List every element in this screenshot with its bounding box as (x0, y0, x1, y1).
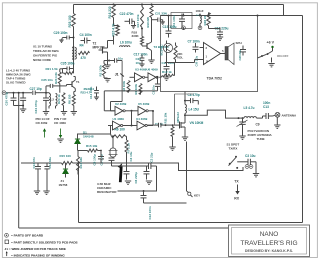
offboard marker tank (2, 91, 6, 95)
label KEY (194, 194, 200, 198)
note L1 L2 (6, 69, 31, 85)
transformer X1 (72, 46, 76, 60)
capacitor C4 (80, 33, 92, 44)
arrow TX-RX (235, 185, 239, 195)
resistor R17 (136, 4, 144, 30)
svg-text:MPSA13: MPSA13 (176, 112, 180, 123)
legend parts off board (5, 233, 44, 237)
phasing arrow (118, 163, 123, 182)
switch S1 pole1 (229, 156, 239, 169)
note resonator (97, 182, 117, 194)
svg-text:R21 1.5k: R21 1.5k (46, 67, 59, 71)
offboard marker near C15 (182, 26, 186, 30)
ground under antenna (274, 117, 280, 128)
resistor R3 100k (122, 80, 130, 92)
label T3 type (154, 45, 171, 49)
svg-text:ON-OFF: ON-OFF (277, 54, 289, 58)
svg-text:T1: T1 (76, 80, 80, 84)
svg-text:R1 100k: R1 100k (134, 83, 138, 94)
svg-text:C15 100u: C15 100u (163, 25, 177, 29)
svg-text:TRAVELLER'S RIG: TRAVELLER'S RIG (240, 240, 297, 247)
wire right frame (302, 16, 304, 223)
resistor R15 10k (78, 144, 102, 152)
svg-text:R15 100: R15 100 (60, 154, 72, 158)
junction audio rail dots (168, 15, 210, 17)
wire D1 top (78, 126, 111, 135)
junction C12 (143, 190, 145, 192)
ground after C3 (253, 167, 259, 177)
resistor R6 100 (112, 128, 126, 138)
resistor R12 1k (157, 63, 175, 79)
svg-text:ANTENNA: ANTENNA (282, 114, 297, 118)
note polyvaricon (248, 129, 273, 141)
capacitor C19 (209, 26, 229, 41)
note S1 DPDT (227, 143, 240, 151)
capacitor C5 100p (99, 154, 114, 166)
key jack (187, 191, 193, 197)
capacitor C20 (238, 46, 246, 61)
junction key rail (78, 162, 80, 164)
wire left rail (18, 93, 20, 228)
svg-text:CD 4069: CD 4069 (54, 121, 66, 125)
capacitor C27 10p (30, 87, 50, 95)
svg-text:DESIGNED BY: KANG.K.P.S.: DESIGNED BY: KANG.K.P.S. (245, 249, 293, 253)
legend phasing (6, 251, 66, 257)
resistor R6 150 (68, 94, 78, 115)
resistor R18 (132, 29, 144, 45)
inductor L5 4.7u (239, 106, 257, 118)
svg-text:U4 4069: U4 4069 (136, 117, 148, 121)
svg-text:C14 100n: C14 100n (89, 86, 93, 99)
wire drain to C8 (0, 0, 2, 2)
op-amp U7 TDA7052 (200, 43, 227, 65)
inverter U3 (130, 73, 145, 82)
transistor T2 MPF102 (93, 42, 108, 57)
wire L4 to antenna line (185, 110, 239, 118)
svg-text:CD 4069: CD 4069 (36, 121, 48, 125)
resistor R24 1.5k (54, 69, 62, 93)
label TDA 7052 (207, 77, 222, 81)
label RX (234, 197, 239, 201)
svg-text:U1 4069: U1 4069 (113, 117, 125, 121)
svg-text:L6 100u: L6 100u (120, 41, 132, 45)
svg-text:= PART DIRECTLY SOLDERED TO PC: = PART DIRECTLY SOLDERED TO PCB PADS (11, 240, 78, 244)
ground under C6 (146, 181, 152, 184)
svg-text:C8 100p: C8 100p (93, 154, 97, 166)
svg-text:R12 1k: R12 1k (162, 70, 172, 74)
label ANTENNA (282, 114, 297, 118)
svg-text:C13: C13 (263, 105, 269, 109)
svg-text:C20 22u: C20 22u (238, 49, 242, 60)
label ON-OFF (277, 54, 289, 58)
svg-text:C30 2.2u: C30 2.2u (195, 55, 199, 66)
svg-text:10u: 10u (118, 56, 123, 60)
svg-text:TUNE: TUNE (257, 137, 265, 141)
ground under T2 (104, 57, 110, 69)
capacitor C29 (54, 31, 75, 42)
wire +V rail drop right (283, 5, 285, 16)
capacitor C7 (188, 40, 200, 67)
svg-text:SLUG TUNED: SLUG TUNED (6, 81, 26, 85)
svg-text:R25 100: R25 100 (68, 15, 72, 27)
ground under C9 (239, 136, 245, 139)
inverter U1 (108, 121, 123, 130)
jumper J1 (115, 61, 124, 102)
wire gate chain (104, 102, 154, 126)
svg-text:VOL: VOL (177, 56, 183, 60)
inverter U2 (111, 106, 126, 115)
capacitor C3 10u (237, 154, 256, 167)
junction on +V rail (113, 4, 115, 6)
wire mixer down (73, 59, 75, 66)
offboard marker near L3 (198, 26, 202, 30)
resistor R20 (116, 26, 120, 36)
wire gate feedback (104, 90, 157, 111)
wire S1 lower step (228, 167, 243, 171)
wire main bottom frame (19, 227, 303, 229)
capacitor C1 10n (152, 78, 161, 95)
wire pot wiper to gate (175, 94, 194, 125)
resistor R14 33k (77, 151, 84, 175)
capacitor C25 10u (104, 56, 123, 63)
svg-text:C30 470p: C30 470p (5, 92, 9, 105)
arrow PIN7 to ground (57, 129, 63, 143)
svg-text:1N4148: 1N4148 (83, 134, 94, 138)
resistor R19 (146, 4, 153, 43)
wire audio internals (163, 13, 208, 81)
svg-text:C3 10u: C3 10u (129, 151, 133, 161)
capacitor C4 10u (124, 151, 134, 179)
svg-text:SPH: SPH (236, 41, 242, 45)
capacitor C8 100p (93, 151, 105, 166)
svg-text:RESONATOR: RESONATOR (97, 190, 117, 194)
wire top +V rail (74, 4, 284, 6)
svg-text:330K: 330K (132, 34, 140, 38)
svg-text:R2 100k: R2 100k (98, 65, 102, 77)
capacitor C7 1n (148, 122, 178, 128)
wire tank rail (6, 92, 32, 94)
inductor L1 (49, 94, 51, 109)
svg-text:C4 100n: C4 100n (80, 33, 92, 37)
capacitor C13 33u (44, 157, 52, 191)
svg-text:R6 150: R6 150 (68, 94, 72, 104)
svg-text:C6 220p: C6 220p (134, 172, 138, 184)
capacitor C8 470p (184, 92, 200, 105)
inverter U6 (145, 73, 158, 82)
svg-text:RX: RX (234, 197, 239, 201)
svg-text:C7 100n: C7 100n (188, 40, 200, 44)
svg-text:C22 470n: C22 470n (120, 12, 134, 16)
label VN 10KM (190, 121, 204, 125)
svg-text:C21 33N: C21 33N (155, 12, 167, 16)
antenna connector (273, 112, 280, 117)
svg-text:R23 1k: R23 1k (57, 94, 61, 104)
wire lower inner box bottom (79, 222, 303, 224)
soldered part box C1 (171, 13, 192, 29)
transistor T1 (67, 77, 80, 95)
capacitor C2 22p (112, 152, 157, 169)
transistor T4 BC548C (159, 41, 172, 63)
ceramic resonator X2 (109, 148, 118, 157)
resistor R4 (79, 44, 90, 61)
audio section frame (161, 16, 258, 92)
capacitor C22 (120, 12, 137, 28)
svg-text:TX/RX: TX/RX (229, 147, 238, 151)
svg-text:R15 10k: R15 10k (86, 144, 98, 148)
resistor R28 (203, 13, 210, 26)
inductor L6 (120, 41, 132, 48)
note X1 winding (33, 44, 60, 62)
svg-text:R19 220: R19 220 (146, 16, 150, 27)
capacitor C14b (89, 86, 99, 99)
speaker SPK (221, 41, 242, 65)
svg-text:R17 100k: R17 100k (136, 14, 140, 27)
title text (240, 231, 297, 253)
resistor R7 2.2k (125, 140, 130, 154)
svg-text:C3 10u: C3 10u (245, 154, 256, 158)
transistor T3 (142, 42, 152, 55)
svg-text:C12 100n: C12 100n (148, 206, 152, 219)
note PIN 7 (54, 117, 67, 125)
legend jumper (5, 247, 66, 251)
wire tank to buffer (63, 85, 67, 86)
capacitor C16 (162, 61, 175, 73)
svg-text:C17 100n: C17 100n (134, 53, 148, 57)
junction +V at audio box (257, 15, 259, 17)
inverter U4 (123, 121, 147, 130)
label R16 220 (108, 6, 112, 18)
svg-text:R11 10k: R11 10k (164, 112, 168, 123)
wire audio top rail (161, 15, 303, 17)
offboard markers at C3 (245, 165, 253, 169)
arrow PIN14 (43, 128, 46, 137)
label U3 U6 (135, 68, 158, 72)
svg-text:C34 470p: C34 470p (34, 100, 38, 113)
capacitor C13 (257, 101, 273, 119)
svg-text:L4 15U: L4 15U (189, 107, 200, 111)
wire osc out (144, 166, 157, 191)
resistor R22 4.7 (63, 69, 74, 75)
label +6 V (267, 41, 275, 45)
svg-text:ON FERRITE PIG: ON FERRITE PIG (33, 53, 58, 57)
svg-text:BC548C: BC548C (159, 44, 163, 56)
svg-text:C27 10p: C27 10p (30, 87, 42, 91)
inverter U5 (125, 106, 148, 115)
svg-text:470: 470 (81, 56, 87, 60)
svg-text:C35 100n: C35 100n (61, 62, 75, 66)
svg-text:+6 V: +6 V (267, 41, 275, 45)
resistor R21 label (46, 67, 59, 71)
transistor T5 VN10KM (176, 112, 185, 131)
wire key rail (21, 162, 62, 164)
resistor R16 (112, 5, 116, 18)
polyvaricon C9 (237, 118, 260, 135)
switch ON-OFF (258, 51, 273, 58)
wire lower inner box left (78, 162, 80, 223)
ground under C14 (34, 191, 40, 194)
svg-text:C9: C9 (256, 123, 260, 127)
capacitor C15 (163, 25, 177, 38)
svg-text:10n: 10n (136, 61, 141, 65)
capacitor C24 (18, 92, 27, 113)
capacitor C28 (136, 55, 145, 67)
svg-text:R24 1.5k: R24 1.5k (54, 72, 58, 84)
diode D1 1N4148 (75, 131, 94, 149)
label Z1 1N758 (59, 179, 68, 187)
svg-text:TX: TX (234, 179, 239, 183)
label U2 U5 (115, 102, 150, 106)
svg-text:1N758: 1N758 (59, 183, 68, 187)
terminal +6V (271, 46, 273, 51)
svg-text:TDA 7052: TDA 7052 (207, 77, 222, 81)
svg-text:C2 22p: C2 22p (149, 152, 153, 162)
capacitor C26 10n (41, 78, 62, 93)
svg-text:NANO: NANO (260, 231, 278, 238)
svg-text:C25 10n: C25 10n (41, 78, 53, 82)
svg-text:VN 10KM: VN 10KM (190, 121, 204, 125)
svg-text:U2 4069: U2 4069 (115, 102, 127, 106)
zener Z1 (63, 163, 68, 178)
svg-text:R4: R4 (80, 44, 84, 48)
potentiometer 22K VOL (174, 43, 183, 63)
wire to key (186, 142, 188, 192)
inductor L4 15u (184, 105, 200, 119)
capacitor C30 470p (5, 92, 24, 106)
junction antenna line (238, 117, 244, 119)
label 2N3904 (81, 87, 95, 95)
resistor R2 100k (98, 64, 110, 82)
ground under T3 (148, 55, 154, 64)
junction R20 top (114, 25, 119, 27)
svg-text:KEY: KEY (194, 194, 200, 198)
svg-text:L2: L2 (51, 98, 55, 102)
label R25 100 (68, 15, 72, 27)
note PIN 14 (36, 117, 50, 125)
label TX (234, 179, 239, 183)
capacitor C17 (134, 53, 148, 57)
wire osc top (111, 134, 127, 148)
capacitor C12 (118, 191, 187, 220)
resistor R15 100 (60, 154, 73, 165)
inductor L2 (51, 94, 58, 109)
svg-text:R3 100k: R3 100k (122, 80, 126, 91)
capacitor C35 (61, 62, 75, 72)
wire key rail 2 (73, 163, 229, 171)
resistor R11 (164, 112, 176, 150)
svg-text:U5 4069: U5 4069 (138, 102, 150, 106)
capacitor C34 470p (34, 92, 49, 115)
svg-text:R28 22: R28 22 (203, 15, 207, 25)
svg-text:= INDICATES PHASING OF WINDING: = INDICATES PHASING OF WINDING (11, 253, 65, 257)
svg-text:R16 220: R16 220 (108, 6, 112, 18)
legend soldered (5, 240, 78, 244)
inductor L3 (197, 13, 202, 28)
title block frame (229, 225, 310, 257)
ground below switch (268, 58, 274, 67)
ground under C4 10u (125, 181, 131, 184)
svg-text:= PARTS OFF BOARD: = PARTS OFF BOARD (11, 234, 44, 238)
label R20 4.7k (112, 23, 116, 36)
svg-text:L5 4.7u: L5 4.7u (244, 106, 255, 110)
label U1 U4 (113, 117, 148, 121)
svg-text:C29 100n: C29 100n (54, 31, 68, 35)
capacitor C14 47n (32, 157, 41, 191)
svg-text:NOSE CORE: NOSE CORE (33, 58, 51, 62)
label 100nF (196, 9, 204, 13)
capacitor C21 (152, 12, 167, 25)
svg-text:TRIFILAR 28 SWG: TRIFILAR 28 SWG (33, 49, 60, 53)
capacitor C6 220p (134, 166, 150, 184)
svg-text:J1 = WIRE JUMPER OR PCB TRACK: J1 = WIRE JUMPER OR PCB TRACK SIDE (5, 247, 66, 251)
wire R16 to T2 (113, 18, 115, 26)
ground under C13 (43, 191, 49, 194)
wire T2 drain (108, 36, 114, 45)
svg-text:U3 4069U6 4069: U3 4069U6 4069 (135, 68, 158, 72)
resistor R25 (72, 5, 76, 47)
ground under T5 (182, 131, 188, 141)
resistor R23 1k (57, 93, 67, 115)
resistor R1 100k (134, 83, 142, 94)
svg-text:J1: J1 (115, 73, 119, 77)
svg-text:X1 10 TURNS: X1 10 TURNS (33, 44, 52, 48)
